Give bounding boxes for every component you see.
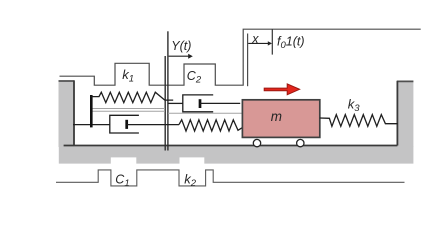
left wall block xyxy=(59,80,75,147)
wall stub to lower damper xyxy=(73,124,110,126)
damper cylinder (lower left) xyxy=(110,115,139,133)
Y(t) arrow xyxy=(169,55,189,57)
damper C2 cylinder xyxy=(183,95,213,112)
damper piston (lower left) xyxy=(125,120,128,129)
right wall top edge xyxy=(397,80,414,82)
left wall top edge xyxy=(59,80,75,82)
Y(t) reference double line xyxy=(164,56,166,151)
inner frame (left wall inner edge, floor line, right wall inner edge) xyxy=(64,81,398,146)
red force arrow xyxy=(264,84,299,95)
spring k1 xyxy=(91,92,173,102)
svg-text:m: m xyxy=(271,109,282,124)
spring 2 (Y line to mass) xyxy=(179,120,242,131)
guide rods (thin gray lines) xyxy=(91,108,165,110)
moving frame outline with k1 and C2 bumps (staircase) xyxy=(60,29,421,85)
damper C2 stub xyxy=(168,102,183,104)
svg-text:k2: k2 xyxy=(184,171,197,189)
damper C2 piston xyxy=(199,99,202,108)
x arrow target line xyxy=(271,29,273,54)
svg-text:f01(t): f01(t) xyxy=(277,35,305,52)
x arrow xyxy=(248,42,268,44)
svg-text:C2: C2 xyxy=(187,69,202,86)
damper C2 rod xyxy=(200,102,240,104)
svg-text:x: x xyxy=(251,32,259,46)
anchor bar xyxy=(90,95,93,127)
right wall block xyxy=(397,81,413,147)
damper rod to spring2 xyxy=(127,124,179,126)
x datum line xyxy=(247,34,249,87)
wheel left xyxy=(253,139,260,146)
base excitation line with C1 and k2 dips xyxy=(56,170,405,186)
svg-text:k1: k1 xyxy=(122,67,134,85)
svg-text:Y(t): Y(t) xyxy=(171,39,191,53)
floor (fixed ground block) xyxy=(59,146,414,163)
mass m xyxy=(242,100,319,138)
wheel right xyxy=(297,139,304,146)
svg-text:k3: k3 xyxy=(348,97,361,115)
spring k3 xyxy=(320,115,398,127)
